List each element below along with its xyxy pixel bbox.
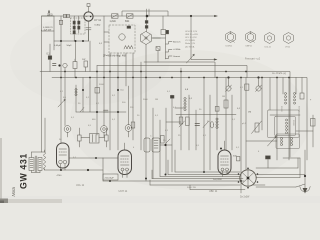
svg-text:UCL11: UCL11: [265, 46, 272, 48]
wire bus y77.5: [52, 78, 307, 161]
bandfilter double box: [90, 134, 100, 144]
junction: [164, 144, 166, 146]
wire box right edge down: [53, 31, 55, 50]
band filter can A: [144, 138, 150, 152]
tube pins wire: [122, 171, 124, 177]
wire column x61: [60, 16, 62, 143]
arrowhead top bus: [214, 15, 218, 17]
IF transformer T1 coils: [184, 97, 186, 99]
nested wire loop outer: [268, 110, 300, 138]
wire bus y65.5: [97, 66, 247, 78]
svg-text:GW 431: GW 431: [19, 153, 29, 189]
wire y158: [69, 157, 103, 159]
svg-text:UCL 11: UCL 11: [76, 184, 85, 187]
pot arrow: [179, 121, 185, 127]
svg-text:1,2kΩ: 1,2kΩ: [110, 21, 116, 23]
field coil: [43, 152, 45, 170]
wire bottom left y170: [45, 169, 104, 171]
mixer tube UCH11: [118, 150, 132, 175]
wire bus y62: [144, 62, 215, 78]
svg-text:5000 3W: 5000 3W: [187, 187, 197, 189]
svg-text:UY 11: UY 11: [94, 18, 102, 22]
tube pins wire: [60, 164, 62, 170]
nested wire loop lower: [276, 134, 300, 149]
svg-text:UCL 11 4,5V: UCL 11 4,5V: [185, 37, 197, 39]
svg-text:≈4 MHz: ≈4 MHz: [173, 48, 181, 51]
resistor: [224, 100, 228, 108]
svg-text:220Ω: 220Ω: [47, 14, 53, 16]
resistor: [105, 135, 109, 141]
svg-text:Ferrocart + μ2: Ferrocart + μ2: [245, 57, 261, 60]
resistor stack: [179, 117, 183, 124]
IF can right coils: [284, 92, 286, 94]
resistor R1 box 220ohm: [42, 16, 55, 31]
svg-text:UBF 11 u.65V: UBF 11 u.65V: [185, 34, 199, 36]
dark comp: [170, 95, 174, 98]
junction dots bus y77.5: [60, 77, 290, 79]
wire x103: [102, 158, 104, 181]
svg-text:Bereich: Bereich: [173, 40, 181, 43]
svg-text:ZF=468 kHz Abgl. 468: ZF=468 kHz Abgl. 468: [103, 54, 127, 57]
svg-text:UCH 11 1,9V: UCH 11 1,9V: [185, 31, 198, 33]
transformer core: [34, 156, 36, 172]
antenna coil L3: [125, 125, 132, 132]
svg-text:2x0,05μF: 2x0,05μF: [105, 178, 115, 180]
svg-text:2x0,05W: 2x0,05W: [213, 179, 223, 181]
left scan edge: [0, 138, 2, 203]
arrowhead mid line: [214, 58, 218, 60]
svg-text:30000: 30000: [292, 120, 294, 126]
wire top bus: [42, 15, 216, 17]
svg-text:Skala 1,9V: Skala 1,9V: [185, 43, 196, 45]
svg-text:UY 11 30V: UY 11 30V: [185, 40, 195, 42]
svg-text:1M: 1M: [155, 99, 158, 101]
resistor on x61: [59, 20, 62, 24]
resistor R3 on bus: [127, 14, 134, 18]
svg-text:UBF11: UBF11: [246, 45, 253, 47]
svg-text:1M: 1M: [248, 112, 251, 114]
tube base diagram UY11: [284, 33, 294, 44]
wire y131 right: [296, 130, 313, 132]
svg-text:alle 90mA: alle 90mA: [185, 45, 195, 48]
arrowhead pot: [192, 54, 194, 57]
bottom scan edge: [0, 199, 62, 203]
lamp circle: [63, 63, 67, 67]
resistor: [245, 84, 249, 90]
ground anchor: [304, 150, 306, 188]
wire x270: [269, 78, 271, 111]
wire left column: [41, 30, 43, 152]
wire osc column pair: [146, 9, 148, 32]
anchor arrowhead: [303, 188, 308, 194]
pot arrow: [187, 55, 195, 64]
arrowhead pot4: [64, 99, 66, 101]
osc trimmer: [127, 26, 131, 28]
output transformer secondary: [38, 158, 42, 171]
oscillator shield dashed box: [109, 25, 135, 53]
wire hex down: [145, 45, 147, 63]
svg-text:0,05μF: 0,05μF: [54, 45, 62, 47]
junction: [146, 15, 149, 18]
osc coil zigzag: [124, 46, 133, 50]
mixer tube hexagon U1: [140, 32, 151, 45]
wave switch S1: [240, 170, 256, 186]
svg-text:4700: 4700: [57, 175, 63, 177]
osc coil circle: [119, 34, 125, 40]
IF tube UBF11: [218, 150, 231, 175]
arrowhead pot3: [274, 136, 276, 138]
nested wire loop inner: [275, 117, 296, 136]
pot arrow bottom right: [268, 137, 277, 147]
wire left pair second: [44, 118, 46, 152]
capacitor C5: [53, 63, 57, 65]
resistor R6: [84, 61, 88, 67]
bottom nest wires: [175, 171, 240, 173]
svg-text:UBF 11: UBF 11: [209, 190, 218, 193]
svg-text:UCH11: UCH11: [226, 45, 234, 47]
svg-text:ca.−Draht−μg: ca.−Draht−μg: [272, 72, 287, 75]
switch box: [156, 47, 160, 51]
capacitor C4: [48, 56, 52, 60]
svg-text:Dz 2x3W: Dz 2x3W: [240, 196, 250, 198]
wire bus y71.5: [40, 72, 290, 158]
capacitor 2x0,1: [86, 27, 91, 29]
svg-text:4μF 2W: 4μF 2W: [44, 30, 53, 32]
junction: [58, 64, 60, 66]
coil small: [75, 88, 77, 90]
junction: [75, 40, 77, 42]
rectifier tube UY11: [84, 12, 93, 21]
wire: [104, 31, 109, 33]
svg-text:30000: 30000: [298, 106, 300, 112]
switch row y112: [76, 111, 126, 113]
IF coil column mid: [285, 119, 287, 121]
wire heater row: [54, 40, 89, 42]
wire y114.5 mid: [176, 114, 236, 116]
tube base diagram UBF11: [246, 32, 256, 43]
tick marks on top bus: [64, 14, 67, 17]
wire y158 extension: [103, 157, 118, 159]
resistor R5: [73, 62, 77, 69]
box right: [311, 119, 316, 127]
svg-text:50μF: 50μF: [67, 45, 73, 47]
antenna coil L2: [101, 126, 108, 133]
wire arrowed line mid: [191, 59, 215, 61]
antenna coil L1: [64, 126, 71, 133]
trimmer bars: [195, 122, 200, 124]
trimmer cap circle: [256, 86, 261, 91]
scattered tiny value labels: [59, 84, 312, 159]
wire y122: [166, 121, 181, 123]
junction: [87, 169, 89, 171]
junction: [82, 89, 84, 91]
pot arrow left mid: [58, 100, 65, 108]
junction top bus: [190, 15, 192, 17]
wire column x104: [103, 16, 105, 72]
svg-text:30000: 30000: [280, 106, 282, 112]
band filter can B: [152, 138, 160, 152]
gray annotation texts: [76, 31, 300, 199]
cap right: [300, 93, 304, 99]
wire y115 right: [270, 114, 300, 116]
svg-text:60Ω: 60Ω: [125, 21, 130, 23]
band switch contacts: [166, 42, 173, 45]
labels: small dark values: [43, 14, 251, 180]
pot arrow: [203, 122, 209, 128]
trimmer cap circle: [226, 86, 231, 91]
arrowhead antenna: [48, 10, 50, 13]
coupling cap row above mixer: resistor: [78, 135, 82, 141]
antenna arrow up: [48, 11, 50, 17]
resistor: [95, 88, 100, 94]
wire jumper over: [122, 11, 168, 16]
IF coil column lower B: [290, 137, 292, 139]
resistor R2 on bus: [112, 14, 119, 18]
cathode resistor box: [103, 174, 118, 180]
tube base diagram UCL11: [265, 33, 275, 44]
wire comb verticals mid: [64, 72, 66, 126]
comp chain x217: [215, 107, 219, 112]
wire y141 right: [246, 140, 277, 142]
wire: [49, 44, 51, 56]
svg-text:Nora: Nora: [11, 187, 16, 197]
svg-text:UCH 11: UCH 11: [119, 190, 128, 193]
svg-text:1M: 1M: [222, 96, 225, 98]
wire bottom y193: [190, 189, 245, 191]
svg-text:UY11: UY11: [285, 46, 291, 48]
wire hex to right: [152, 37, 161, 39]
IF coil column lower A: [280, 137, 282, 139]
output tube UCL11: [57, 143, 70, 168]
wire links: [81, 137, 89, 139]
junction: [60, 40, 62, 42]
output transformer primary: [29, 158, 34, 171]
small comp above switch: [266, 156, 271, 159]
volume pot: [255, 123, 259, 132]
wire: [160, 144, 172, 146]
filament resistor chain: [71, 18, 86, 34]
tube base diagram UCH11: [226, 32, 236, 43]
wire column x191: [190, 16, 192, 60]
resistor chain right of hex: [161, 30, 166, 35]
junction dots bus y71.5: [64, 71, 247, 73]
right nest wires: [256, 167, 298, 169]
svg-text:6,3kΩ: 6,3kΩ: [95, 24, 101, 26]
svg-text:Gummi: Gummi: [173, 56, 181, 58]
